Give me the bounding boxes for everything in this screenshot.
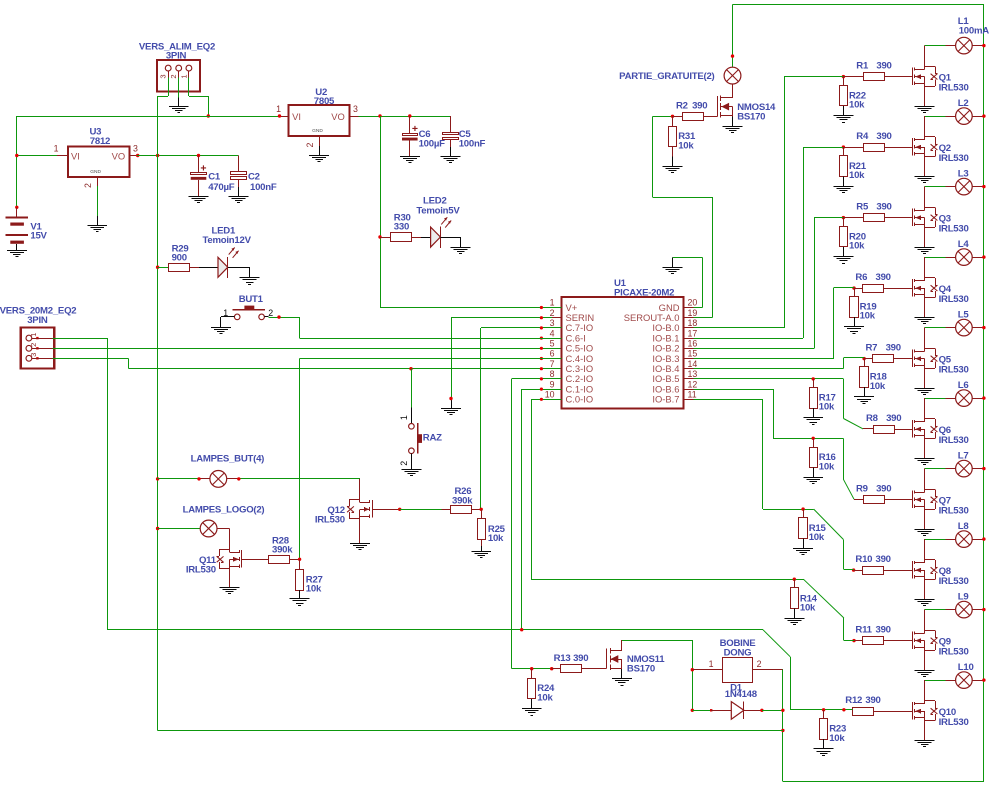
junction R2 gate — [671, 115, 674, 118]
lamp L5 — [956, 309, 973, 336]
junction battery top — [15, 206, 18, 209]
svg-text:IRL530: IRL530 — [939, 82, 969, 93]
regulator U3 7812 — [54, 127, 138, 188]
ground under U2 — [309, 156, 329, 162]
svg-text:19: 19 — [688, 308, 698, 318]
transistor Q6 IRL530 — [913, 419, 969, 446]
svg-text:IRL530: IRL530 — [939, 364, 969, 375]
lamp PARTIE_GRATUITE(2) — [619, 67, 741, 84]
svg-text:R6: R6 — [855, 272, 867, 283]
junction BUT1 output — [277, 315, 280, 318]
ground under C6 — [400, 157, 420, 163]
ground under R31 — [662, 167, 682, 173]
svg-text:17: 17 — [688, 328, 698, 338]
svg-text:L6: L6 — [958, 380, 969, 391]
ground under LED2 — [451, 248, 471, 254]
svg-text:3: 3 — [353, 104, 358, 114]
svg-text:6: 6 — [550, 349, 555, 359]
ground under Q6 — [915, 459, 935, 465]
wire NMOS14 source to ground — [732, 116, 734, 126]
svg-text:GND: GND — [312, 128, 323, 134]
wire lamp L6 row — [925, 398, 984, 400]
svg-text:L2: L2 — [958, 98, 969, 109]
svg-text:L10: L10 — [958, 662, 974, 673]
capacitor C1 470uF — [191, 156, 235, 197]
ground under Q11 — [220, 588, 240, 594]
svg-text:IRL530: IRL530 — [939, 223, 969, 234]
junction 12V rail bottom — [781, 729, 784, 732]
wire lamp L7 row — [925, 468, 984, 470]
svg-text:390: 390 — [573, 653, 588, 664]
ground under C5 — [440, 157, 460, 163]
svg-text:1: 1 — [29, 333, 38, 337]
transistor Q12 IRL530 — [315, 499, 373, 526]
transistor Q10 IRL530 — [913, 701, 969, 728]
wire gate net ch4 — [693, 288, 854, 359]
svg-text:12: 12 — [688, 379, 698, 389]
wire U2 pin2 to ground — [319, 146, 321, 156]
svg-text:IRL530: IRL530 — [315, 515, 345, 526]
ground under Q8 — [915, 600, 935, 606]
svg-text:2: 2 — [268, 308, 273, 318]
ground under Q1 — [915, 107, 935, 113]
junction R29 on 12V rail — [156, 266, 159, 269]
svg-text:10: 10 — [545, 390, 555, 400]
wire U3 pin2 to ground — [97, 186, 99, 225]
resistor R20 10k — [840, 218, 866, 257]
wire drain riser Q4 — [924, 257, 926, 278]
wire drain riser Q7 — [924, 469, 926, 490]
wire connector pin2 to C.5 — [52, 348, 561, 350]
switch RAZ — [399, 369, 442, 469]
wire NMOS11 source to ground — [621, 669, 623, 679]
resistor R5 390 — [856, 202, 912, 222]
ground under Q3 — [915, 248, 935, 254]
resistor R11 390 — [855, 625, 912, 645]
resistor R22 10k — [840, 77, 866, 116]
junction gate Q1 — [842, 75, 864, 78]
ground under Q2 — [915, 177, 935, 183]
lamp L7 — [956, 450, 973, 477]
junction R13 pin — [550, 667, 553, 670]
svg-text:10k: 10k — [849, 170, 865, 181]
ground under Q5 — [915, 389, 935, 395]
resistor R19 10k — [850, 288, 877, 327]
svg-text:R8: R8 — [866, 413, 879, 424]
resistor R9 390 — [856, 484, 912, 504]
inductor BOBINE DONG — [692, 638, 783, 683]
wire R26 left — [400, 509, 451, 511]
svg-text:IRL530: IRL530 — [939, 576, 969, 587]
junction lamp L3 bus — [982, 185, 985, 188]
svg-text:IRL530: IRL530 — [186, 565, 216, 576]
junction LAMPES_BUT pin right — [237, 477, 240, 480]
ground under R27 — [290, 599, 310, 606]
wire pin20 GND hook — [673, 257, 703, 307]
junction gate Q2 — [842, 145, 864, 148]
wire lamp to NMOS14 drain — [732, 84, 734, 98]
svg-text:10k: 10k — [678, 141, 694, 152]
junction gate Q5 — [862, 357, 872, 360]
transistor Q7 IRL530 — [913, 489, 969, 516]
wire gate net ch7 — [693, 389, 863, 499]
svg-text:R7: R7 — [866, 343, 878, 354]
svg-text:390k: 390k — [272, 545, 293, 556]
resistor R13 390 — [552, 653, 607, 673]
svg-text:IRL530: IRL530 — [939, 435, 969, 446]
svg-text:+: + — [412, 123, 418, 135]
wire lamp L3 row — [925, 186, 984, 188]
junction D1 anode corner — [691, 709, 694, 712]
junction R12 pin — [842, 708, 845, 711]
svg-text:10k: 10k — [819, 402, 835, 413]
ground under NMOS11 — [612, 679, 632, 686]
ground under Q12 — [350, 544, 370, 550]
wire Q11 source to ground — [229, 569, 231, 588]
ground under R21 — [833, 187, 853, 193]
ground above PICAXE pin20 — [663, 268, 683, 274]
wire lamp L5 row — [925, 327, 984, 329]
wire bottom bus — [783, 781, 984, 783]
wire drain riser Q1 — [924, 46, 926, 67]
svg-text:100mA: 100mA — [959, 25, 990, 36]
svg-text:10k: 10k — [537, 692, 553, 703]
wire 12V top bus — [733, 5, 984, 782]
wire pin10 C.0 down to Q9 row — [531, 399, 561, 579]
svg-text:VI: VI — [71, 151, 80, 162]
junction LAMPES_LOGO left — [156, 527, 159, 530]
transistor Q8 IRL530 — [913, 560, 969, 587]
svg-text:3: 3 — [29, 353, 38, 357]
junction 12V rail at U3 output — [156, 154, 159, 157]
svg-text:100µF: 100µF — [419, 139, 446, 150]
ground under R15 — [793, 549, 813, 555]
svg-text:100nF: 100nF — [459, 139, 486, 150]
capacitor C5 100nF — [443, 129, 486, 156]
svg-text:IO-B.7: IO-B.7 — [652, 394, 679, 405]
ground under Q10 — [915, 741, 935, 747]
wire 12V output of U3 to C1 C2 — [137, 156, 239, 172]
ground under R22 — [833, 116, 853, 123]
ground under R25 — [471, 552, 491, 558]
wire gate net ch6 — [693, 379, 873, 429]
resistor R2 390 — [673, 101, 718, 121]
wire BUT1 to C.6 net — [269, 317, 300, 338]
svg-text:5: 5 — [550, 339, 555, 349]
svg-text:R5: R5 — [856, 202, 869, 213]
svg-text:10k: 10k — [800, 603, 816, 614]
svg-text:R13: R13 — [554, 653, 571, 664]
wire lamp L10 row — [925, 680, 984, 682]
svg-text:BS170: BS170 — [627, 663, 655, 674]
wire long C.1 net — [107, 630, 852, 710]
wire D1 anode — [692, 710, 711, 712]
wire lamp L9 row — [925, 609, 984, 611]
wire lamp L1 row — [925, 45, 984, 47]
svg-text:BUT1: BUT1 — [239, 294, 264, 305]
wire drain riser Q6 — [924, 398, 926, 419]
resistor R8 390 — [866, 413, 912, 433]
svg-text:DONG: DONG — [724, 648, 752, 659]
svg-text:RAZ: RAZ — [423, 433, 442, 444]
wire gate net ch3 — [693, 218, 843, 349]
IC U1 PICAXE-20M2 — [545, 278, 698, 409]
junction SERIN ground — [449, 397, 452, 400]
svg-text:390: 390 — [692, 101, 707, 112]
svg-text:Temoin12V: Temoin12V — [203, 235, 252, 246]
resistor R23 10k — [820, 710, 847, 749]
resistor R16 10k — [810, 438, 836, 477]
ground under Q9 — [915, 671, 935, 677]
wire LAMPES_LOGO row — [158, 528, 201, 530]
svg-text:7812: 7812 — [90, 136, 110, 147]
resistor R14 10k — [791, 579, 818, 618]
svg-text:Temoin5V: Temoin5V — [416, 205, 460, 216]
svg-text:7805: 7805 — [314, 96, 335, 107]
svg-text:GND: GND — [90, 169, 101, 175]
junction R17 — [812, 377, 815, 380]
junction R25 — [480, 508, 483, 511]
wire NMOS11 drain to BOBINE — [622, 640, 693, 710]
wire U3 pin1 to 15V rail — [17, 155, 57, 157]
svg-text:470µF: 470µF — [208, 182, 235, 193]
wire source Q8 to ground — [924, 580, 926, 600]
svg-text:IRL530: IRL530 — [939, 153, 969, 164]
svg-text:2: 2 — [757, 659, 762, 669]
svg-text:2: 2 — [305, 142, 315, 147]
wire source Q10 to ground — [924, 721, 926, 741]
svg-text:8: 8 — [550, 369, 555, 379]
wire source Q6 to ground — [924, 439, 926, 459]
ground under Q4 — [915, 318, 935, 324]
svg-text:PARTIE_GRATUITE(2): PARTIE_GRATUITE(2) — [619, 71, 714, 82]
connector VERS_20M2_EQ2 3PIN — [0, 305, 76, 368]
junction long net pin9 — [520, 628, 523, 631]
ground under RAZ — [401, 470, 421, 476]
svg-text:BS170: BS170 — [737, 111, 765, 122]
transistor Q11 IRL530 — [186, 549, 242, 576]
wire pin19 SEROUT to R2 net — [652, 116, 712, 317]
svg-text:15V: 15V — [30, 231, 47, 242]
lamp L3 — [956, 168, 973, 195]
wire connector pin1 to C.1 long net — [52, 338, 107, 630]
transistor NMOS14 BS170 — [718, 84, 777, 122]
wire source Q7 to ground — [924, 509, 926, 529]
lamp L6 — [956, 380, 973, 407]
wire gate net ch8 — [693, 399, 853, 569]
svg-text:R9: R9 — [856, 484, 868, 495]
resistor R26 390k — [451, 486, 482, 513]
wire 12V vertical rail — [157, 96, 159, 730]
svg-text:VO: VO — [331, 111, 345, 122]
ground under R19 — [844, 327, 864, 334]
svg-text:10k: 10k — [849, 241, 865, 252]
resistor R24 10k — [528, 669, 556, 709]
lamp L2 — [956, 98, 973, 125]
junction PARTIE lamp pin — [731, 54, 734, 57]
junction gate Q4 — [852, 286, 862, 289]
transistor Q2 IRL530 — [913, 137, 969, 164]
svg-text:390: 390 — [886, 413, 901, 424]
svg-text:L9: L9 — [958, 591, 969, 602]
svg-text:10k: 10k — [809, 532, 825, 543]
svg-text:10k: 10k — [306, 584, 322, 595]
svg-text:2: 2 — [399, 461, 409, 466]
wire 12V rail bottom horizontal — [158, 730, 783, 732]
wire drain riser Q10 — [924, 680, 926, 701]
svg-text:+: + — [200, 162, 206, 174]
svg-text:3: 3 — [159, 74, 168, 78]
svg-text:390: 390 — [876, 131, 891, 142]
resistor R12 390 — [845, 695, 912, 715]
transistor Q5 IRL530 — [913, 348, 969, 375]
wire Q12 drain riser — [359, 479, 361, 503]
svg-text:1: 1 — [399, 415, 409, 420]
svg-text:R2: R2 — [676, 101, 688, 112]
wire connector pin3 to C.3 — [52, 358, 128, 368]
svg-text:18: 18 — [688, 318, 698, 328]
svg-text:LAMPES_BUT(4): LAMPES_BUT(4) — [191, 453, 265, 464]
svg-text:390: 390 — [876, 625, 891, 636]
wire Q12 source to ground — [359, 519, 361, 544]
junction U2 input pin — [278, 114, 281, 117]
svg-text:7: 7 — [550, 359, 555, 369]
svg-text:13: 13 — [688, 369, 698, 379]
resistor R7 390 — [866, 343, 913, 363]
resistor R30 330 — [380, 212, 421, 241]
svg-text:1N4148: 1N4148 — [725, 689, 758, 700]
lamp L4 — [956, 239, 973, 266]
wire drain riser Q3 — [924, 187, 926, 208]
wire gate net ch2 — [693, 147, 843, 338]
ground under battery V1 — [7, 251, 27, 257]
svg-text:20: 20 — [688, 298, 698, 308]
wire BOBINE pin2 down to bottom bus — [782, 670, 784, 782]
wire SERIN to ground — [451, 318, 552, 409]
svg-text:390: 390 — [876, 202, 891, 213]
lamp L8 — [956, 521, 973, 548]
junction gate Q3 — [842, 216, 864, 219]
resistor R6 390 — [855, 272, 912, 292]
pin stub SERIN — [552, 317, 562, 319]
wire Q12 gate lead — [372, 509, 400, 511]
svg-text:R12: R12 — [845, 695, 862, 706]
wire lamp L2 row — [925, 116, 984, 118]
diode D1 1N4148 — [711, 682, 762, 719]
svg-text:390: 390 — [865, 695, 880, 706]
transistor Q3 IRL530 — [913, 207, 969, 234]
junction lamp L5 bus — [982, 326, 985, 329]
resistor R27 10k — [296, 559, 323, 599]
wire lamp L4 row — [925, 257, 984, 259]
svg-text:PICAXE-20M2: PICAXE-20M2 — [614, 287, 674, 298]
wire lamp PARTIE_GRATUITE feed — [732, 5, 734, 67]
junction 5V to PICAXE V+ — [378, 114, 381, 117]
battery V1 15V — [6, 207, 48, 250]
junction lamp L9 bus — [982, 608, 985, 611]
junction R30 — [378, 235, 381, 238]
wire VERS_ALIM pin1 to 15V line — [189, 78, 209, 117]
junction lamp L10 bus — [982, 678, 985, 681]
lamp LAMPES_LOGO(2) — [183, 505, 265, 537]
ground under R20 — [833, 257, 853, 264]
wire source Q5 to ground — [924, 368, 926, 388]
wire gate net ch5 — [693, 358, 864, 369]
svg-text:100nF: 100nF — [250, 182, 277, 193]
ground under C2 — [229, 197, 249, 203]
svg-text:2: 2 — [29, 343, 38, 347]
resistor R18 10k — [860, 358, 888, 397]
svg-text:L4: L4 — [958, 239, 970, 250]
junction R16 — [812, 437, 815, 440]
wire RAZ row to PICAXE pin7 — [128, 368, 561, 370]
junction C6 top — [408, 114, 411, 117]
ground under R14 — [784, 619, 804, 625]
transistor NMOS11 BS170 — [607, 648, 666, 674]
wire pin3 C.7 down to R26 junction — [481, 328, 562, 510]
svg-text:1: 1 — [54, 144, 59, 154]
wire LAMPES_BUT row — [158, 478, 360, 480]
svg-text:IRL530: IRL530 — [939, 646, 969, 657]
resistor R21 10k — [840, 147, 867, 186]
wire source Q4 to ground — [924, 298, 926, 318]
svg-text:330: 330 — [394, 222, 409, 233]
svg-text:10k: 10k — [829, 733, 845, 744]
wire LOGO lamp to Q11 drain — [217, 529, 230, 553]
ground under NMOS14 — [723, 127, 743, 133]
svg-text:2: 2 — [83, 183, 93, 188]
wire drain riser Q5 — [924, 328, 926, 349]
svg-text:VI: VI — [292, 111, 301, 122]
svg-text:16: 16 — [688, 339, 698, 349]
junction lamp L8 bus — [982, 537, 985, 540]
svg-text:10k: 10k — [488, 533, 504, 544]
junction C1 top — [197, 154, 200, 157]
svg-text:VO: VO — [112, 151, 126, 162]
svg-text:1: 1 — [276, 104, 281, 114]
svg-text:L8: L8 — [958, 521, 970, 532]
svg-text:1: 1 — [550, 298, 555, 308]
resistor R29 900 — [158, 243, 199, 271]
svg-text:2: 2 — [550, 308, 555, 318]
junction R14 — [793, 578, 796, 581]
wire gate net ch9 — [531, 579, 854, 640]
wire drain riser Q9 — [924, 610, 926, 631]
svg-text:390: 390 — [876, 484, 891, 495]
junction D1 anode pin — [710, 709, 712, 711]
junction R27 — [298, 558, 301, 561]
svg-text:1: 1 — [709, 659, 714, 669]
junction R26 left — [398, 508, 401, 511]
transistor Q9 IRL530 — [913, 630, 969, 657]
lamp LAMPES_BUT(4) — [191, 453, 265, 487]
svg-text:L3: L3 — [958, 168, 969, 179]
wire 15V horizontal line — [17, 116, 280, 118]
svg-text:2: 2 — [169, 74, 178, 78]
svg-text:3: 3 — [550, 318, 555, 328]
svg-text:IRL530: IRL530 — [939, 717, 969, 728]
wire 15V left rail down to battery — [16, 116, 18, 207]
ground under R24 — [522, 709, 542, 716]
resistor R31 10k — [669, 116, 696, 166]
resistor R15 10k — [799, 509, 827, 548]
svg-text:390: 390 — [886, 343, 901, 354]
ground under SERIN — [441, 409, 461, 415]
junction lamp L4 bus — [982, 255, 985, 258]
svg-text:LAMPES_LOGO(2): LAMPES_LOGO(2) — [183, 505, 265, 516]
wire pin9 C.1 down to long net — [522, 389, 562, 630]
transistor Q1 IRL530 — [913, 66, 969, 93]
